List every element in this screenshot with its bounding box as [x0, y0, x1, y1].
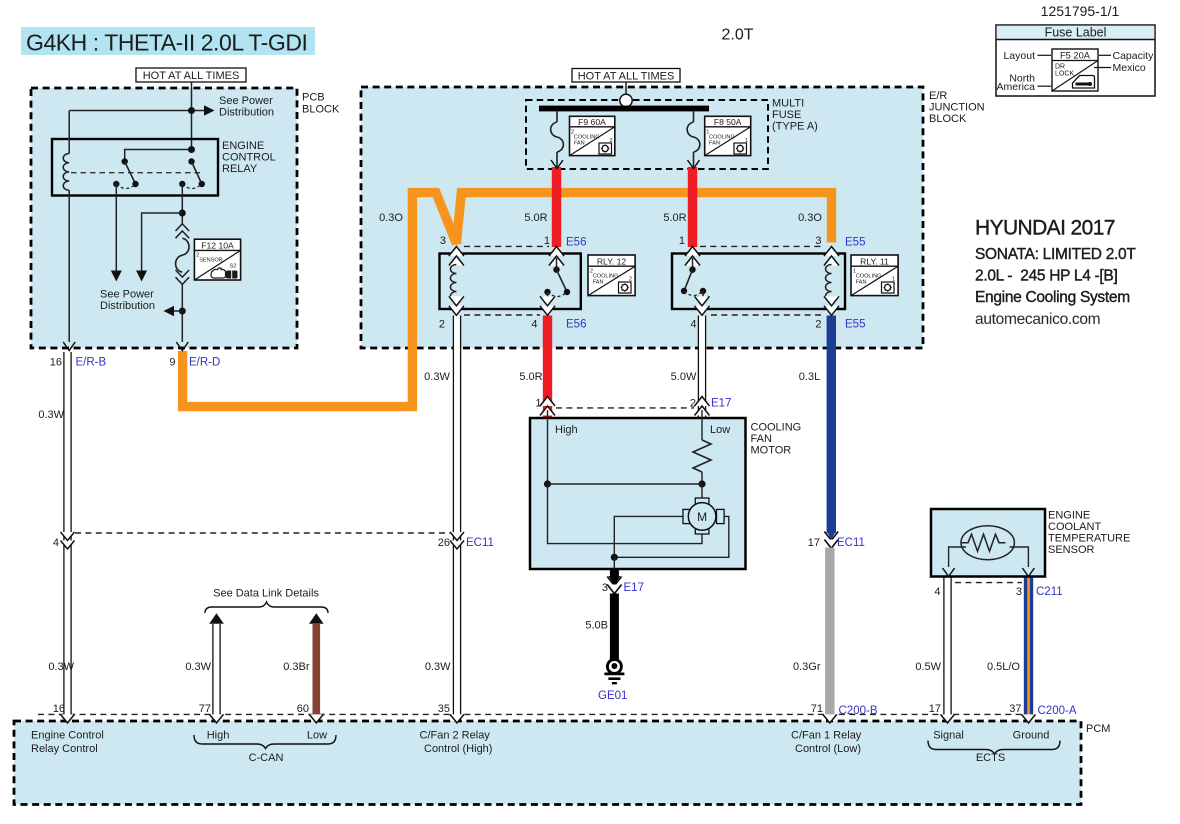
svg-text:Ground: Ground: [1013, 730, 1050, 742]
MULTI FUSE box: [526, 100, 768, 169]
legend fuse box F5: [1052, 49, 1098, 91]
RLY12 switch wire top: [556, 258, 558, 270]
ECTS brace: [928, 741, 1060, 755]
RLY11 label box: [851, 255, 898, 296]
svg-text:0.3L: 0.3L: [799, 371, 820, 383]
svg-text:LOCK: LOCK: [1055, 71, 1074, 78]
wire white 0.3W RLY12 pin2 to PCM pin35: [453, 316, 460, 715]
svg-text:HYUNDAI 2017: HYUNDAI 2017: [975, 217, 1115, 240]
RLY12 switch contact upper: [553, 267, 559, 273]
ENGINE CONTROL RELAY label: [222, 140, 276, 175]
wire blue/orange 0.5L/O ECT pin3 to PCM pin37: [1024, 577, 1033, 715]
PCM C/Fan 2 text: [420, 730, 493, 756]
PCM block box: [14, 721, 1081, 805]
PCM pin numbers: [53, 703, 1022, 715]
svg-text:ECTS: ECTS: [976, 752, 1005, 764]
RLY12 switch contacts lower: [544, 289, 570, 295]
svg-text:35: 35: [438, 703, 450, 715]
svg-text:FAN: FAN: [593, 279, 604, 285]
data link brace: [205, 602, 328, 613]
svg-text:0.3W: 0.3W: [185, 661, 211, 673]
PCM pin60 chevron: [309, 714, 323, 723]
fan resistor: [693, 440, 711, 472]
svg-text:16: 16: [50, 357, 62, 369]
fuse F12 label box: [194, 239, 240, 280]
svg-text:1: 1: [544, 235, 550, 247]
svg-text:F9 60A: F9 60A: [578, 117, 606, 127]
fan wire resistor to node: [701, 472, 703, 484]
RLY11 switch contacts lower: [681, 288, 706, 294]
fan pin3 labels: [602, 582, 644, 594]
svg-text:71: 71: [811, 703, 823, 715]
wire white 5.0W RLY11 pin4 to fan pin2: [698, 316, 705, 419]
svg-text:Relay Control: Relay Control: [31, 743, 98, 755]
MULTI FUSE label: [772, 98, 818, 133]
E/R-D pin label: [169, 357, 220, 369]
fan wire low: [701, 410, 703, 440]
pin16 arrowhead: [63, 342, 75, 351]
svg-text:26: 26: [438, 537, 450, 549]
svg-text:CONTROL: CONTROL: [222, 152, 276, 164]
svg-text:3: 3: [1016, 586, 1022, 598]
svg-text:E55: E55: [845, 319, 865, 331]
svg-text:ENGINE: ENGINE: [222, 140, 264, 152]
svg-text:C-CAN: C-CAN: [249, 752, 284, 764]
RLY11 switch wire down: [702, 291, 704, 302]
wire gray 0.3Gr EC11 to PCM pin71: [825, 548, 834, 715]
switch2 blade: [192, 162, 202, 185]
svg-text:0.3O: 0.3O: [798, 212, 822, 224]
wire blue arrowhead at EC11: [827, 531, 836, 540]
svg-text:FAN: FAN: [751, 433, 772, 445]
svg-text:M: M: [697, 510, 707, 524]
RLY11 coil chevron bottom: [824, 296, 839, 315]
wire orange 0.3O path: [183, 193, 832, 407]
fuse F12 S-curve: [176, 238, 190, 272]
C-CAN brace: [194, 735, 336, 749]
fan node C: [611, 554, 618, 561]
svg-text:E17: E17: [711, 398, 731, 410]
svg-text:Distribution: Distribution: [219, 107, 274, 119]
switch1 contact upper: [122, 158, 128, 164]
fan wire high: [547, 410, 549, 484]
ECT pin labels: [934, 586, 1062, 598]
engine control relay box: [52, 139, 218, 196]
svg-text:(TYPE A): (TYPE A): [772, 121, 818, 133]
svg-text:4: 4: [690, 319, 696, 331]
switch1 blade: [125, 162, 136, 185]
svg-text:SENSOR: SENSOR: [199, 258, 223, 264]
svg-text:5.0R: 5.0R: [519, 371, 542, 383]
chevron 2 at EC11 pin17: [824, 540, 838, 549]
arrow down see power left: [111, 271, 122, 282]
PCM pin35 chevron: [450, 714, 464, 723]
svg-text:Control (High): Control (High): [424, 743, 492, 755]
svg-text:EC11: EC11: [837, 537, 865, 549]
node fuse top: [179, 210, 186, 217]
svg-text:5.0B: 5.0B: [585, 620, 608, 632]
arrow right see power: [204, 105, 215, 115]
fuse label legend box: [996, 25, 1155, 96]
RLY11 coil chevron top: [824, 247, 839, 266]
svg-text:S2: S2: [230, 264, 237, 270]
relay RLY11 box: [672, 254, 845, 310]
RLY12 switch wire down: [547, 292, 549, 302]
E/R-B pin label: [50, 357, 107, 369]
connector row E55 bottom dashed: [711, 314, 824, 316]
wire blue 0.3L RLY11 pin2 to EC11 pin17: [827, 316, 836, 534]
RLY11 coil: [826, 265, 832, 301]
fuse F9 lead: [556, 111, 558, 122]
svg-text:2: 2: [690, 398, 696, 410]
PCM C/Fan 1 text: [791, 730, 862, 756]
fuse F8 arrowhead: [688, 160, 700, 169]
node below fuse: [179, 308, 186, 315]
svg-text:GE01: GE01: [598, 690, 627, 702]
fan pin1 chevron: [540, 397, 555, 416]
svg-text:3: 3: [815, 235, 821, 247]
svg-text:C200-B: C200-B: [839, 705, 878, 717]
connector row E56 bottom dashed: [464, 314, 540, 316]
svg-text:E/R-D: E/R-D: [189, 357, 220, 369]
svg-text:0.3Br: 0.3Br: [283, 661, 310, 673]
fan pin labels: [535, 398, 696, 410]
svg-text:See Power: See Power: [219, 95, 273, 107]
E/R JUNCTION BLOCK label: [929, 90, 985, 125]
svg-text:1251795-1/1: 1251795-1/1: [1041, 3, 1120, 19]
svg-text:F5 20A: F5 20A: [1060, 51, 1091, 61]
legend Capacity label: [1099, 50, 1154, 62]
svg-text:High: High: [207, 730, 230, 742]
svg-text:C/Fan 2 Relay: C/Fan 2 Relay: [420, 730, 491, 742]
PCM pin71 chevron: [823, 714, 837, 723]
fan node A: [544, 480, 551, 487]
connector row E17 dashed: [556, 407, 694, 409]
fuse F8 lead: [693, 111, 695, 122]
wire red 5.0R fuse F8 to RLY11 pin1: [688, 167, 697, 247]
svg-text:Capacity: Capacity: [1113, 50, 1155, 62]
svg-text:Engine Control: Engine Control: [31, 730, 104, 742]
fan wire motor left to node C: [614, 516, 683, 557]
svg-text:E17: E17: [624, 582, 644, 594]
svg-text:PCB: PCB: [302, 92, 325, 104]
ground GE01 symbol: [604, 660, 624, 684]
svg-text:Mexico: Mexico: [1113, 62, 1146, 74]
connector row E56 top dashed: [464, 245, 549, 247]
svg-text:2: 2: [439, 319, 445, 331]
ECT ellipse: [961, 526, 1014, 560]
legend Layout label: [1003, 50, 1051, 62]
See Power Distribution text top: [219, 95, 274, 119]
PCM pin17 chevron: [941, 714, 955, 723]
switch2 dashed arc: [182, 184, 202, 189]
svg-text:0.5W: 0.5W: [915, 661, 941, 673]
fan wire node A to B: [548, 483, 703, 485]
svg-text:C/Fan 1 Relay: C/Fan 1 Relay: [791, 730, 862, 742]
svg-text:F12 10A: F12 10A: [201, 241, 234, 251]
svg-text:High: High: [555, 424, 578, 436]
wire labels row1: [379, 212, 822, 224]
svg-text:C211: C211: [1036, 586, 1063, 598]
RLY12 switch chevron top: [549, 247, 564, 266]
chevron fan pin3: [607, 585, 621, 594]
wire gauge labels row3: [48, 661, 1020, 673]
RLY11 switch chevron top: [685, 247, 700, 266]
svg-text:ENGINE: ENGINE: [1048, 510, 1090, 522]
PCM pin77 chevron: [210, 714, 224, 723]
svg-text:5.0W: 5.0W: [671, 371, 697, 383]
pin9 arrowhead: [176, 342, 188, 351]
EC11 pin4 chevron: [61, 532, 75, 549]
svg-text:Layout: Layout: [1003, 50, 1035, 62]
svg-text:0.3W: 0.3W: [425, 661, 451, 673]
switch2 contacts lower: [179, 181, 205, 187]
wire arrow-left branch: [172, 310, 182, 312]
arrow up C-CAN Low: [309, 613, 324, 624]
RLY11 switch wire top: [692, 258, 694, 270]
RLY12 coil chevron bottom: [449, 296, 464, 315]
arrow up C-CAN High: [209, 613, 224, 624]
EC11 pin17 label: [808, 537, 865, 549]
svg-text:16: 16: [53, 703, 65, 715]
svg-text:G4KH : THETA-II 2.0L T-GDI: G4KH : THETA-II 2.0L T-GDI: [26, 30, 307, 56]
node switch1 top: [188, 146, 195, 153]
svg-text:RELAY: RELAY: [222, 163, 258, 175]
ECT sensor label: [1048, 510, 1130, 557]
ECT wire right: [1010, 547, 1029, 567]
wire brown 0.3Br C-CAN Low: [313, 624, 321, 715]
relay internal dashed line: [71, 172, 202, 174]
svg-text:E56: E56: [566, 319, 586, 331]
svg-text:5.0R: 5.0R: [524, 212, 547, 224]
pin labels relay top: [440, 235, 822, 247]
fuse F8 S-curve: [687, 122, 700, 152]
HOT AT ALL TIMES label 1: [136, 68, 246, 82]
ECT wire left: [949, 547, 966, 567]
svg-text:Control (Low): Control (Low): [795, 743, 861, 755]
svg-text:17: 17: [808, 537, 820, 549]
fan wire node A loop to motor bottom: [548, 484, 703, 544]
svg-text:MOTOR: MOTOR: [751, 445, 792, 457]
fuse F12 chevrons down: [176, 270, 190, 284]
svg-text:60: 60: [297, 703, 309, 715]
connector row E55 top dashed: [700, 245, 824, 247]
svg-text:SONATA: LIMITED 2.0T: SONATA: LIMITED 2.0T: [975, 246, 1136, 263]
svg-text:2.0L - 245 HP L4 -[B]: 2.0L - 245 HP L4 -[B]: [975, 268, 1117, 285]
fan pin2 chevron: [695, 397, 710, 416]
svg-text:0.5L/O: 0.5L/O: [987, 661, 1020, 673]
svg-text:F8 50A: F8 50A: [714, 117, 742, 127]
fuse F9 S-curve: [551, 122, 564, 152]
node top junction: [188, 107, 195, 114]
connector row EC11 dashed: [75, 532, 450, 534]
E/R JUNCTION BLOCK box: [361, 87, 923, 348]
PCB BLOCK label: [302, 92, 340, 116]
relay RLY12 box: [440, 254, 581, 310]
svg-text:SENSOR: SENSOR: [1048, 544, 1095, 556]
fuse F8 lead lower: [693, 152, 695, 168]
svg-text:EC11: EC11: [466, 537, 494, 549]
black arrowhead fan pin3: [609, 576, 621, 585]
fuse F9 label box: [570, 116, 615, 155]
svg-text:Distribution: Distribution: [100, 300, 155, 312]
svg-text:HOT AT ALL TIMES: HOT AT ALL TIMES: [143, 70, 240, 82]
svg-text:See Data Link Details: See Data Link Details: [213, 588, 319, 600]
svg-text:RLY. 11: RLY. 11: [860, 256, 889, 266]
svg-text:RLY. 12: RLY. 12: [597, 256, 627, 266]
wire branch to second down arrow: [142, 213, 183, 271]
switch1 contacts lower: [113, 181, 139, 187]
ECT sensor box: [931, 509, 1045, 577]
svg-text:2: 2: [815, 319, 821, 331]
PCM pin37 chevron: [1022, 714, 1036, 723]
switch2 contact upper: [188, 158, 194, 164]
title highlight: [21, 27, 315, 55]
wire HOT2 down: [625, 82, 627, 95]
wire switch1 down: [115, 184, 117, 271]
svg-text:FUSE: FUSE: [772, 109, 801, 121]
ECT pin4 arrowhead: [943, 568, 955, 577]
svg-text:0.3O: 0.3O: [379, 212, 403, 224]
vehicle info text block: [975, 217, 1136, 329]
svg-text:E55: E55: [845, 237, 865, 249]
wire black 5.0B fan pin3 upper: [610, 569, 619, 577]
svg-text:TEMPERATURE: TEMPERATURE: [1048, 533, 1130, 545]
fan wire node C down: [613, 557, 615, 569]
svg-text:0.3W: 0.3W: [38, 409, 64, 421]
COOLING FAN MOTOR label: [751, 422, 802, 457]
fan wire motor right loop to node C: [614, 516, 729, 557]
svg-text:See Power: See Power: [100, 289, 154, 301]
relay coil: [63, 154, 69, 191]
RLY12 switch blade: [557, 270, 568, 292]
relay coil wire upper: [68, 111, 70, 154]
legend Mexico label: [1094, 62, 1146, 74]
EC11 pin26 label: [438, 537, 494, 549]
motor tabs: [683, 498, 724, 534]
svg-text:0.3W: 0.3W: [424, 371, 450, 383]
svg-text:37: 37: [1009, 703, 1021, 715]
svg-text:4: 4: [53, 537, 59, 549]
wire see-power branch top: [69, 110, 205, 112]
svg-text:3: 3: [602, 582, 608, 594]
PCB BLOCK box: [31, 88, 297, 348]
wire white 0.5W ECT pin4 to PCM pin17: [944, 577, 951, 715]
cooling fan motor box: [530, 418, 746, 569]
wire coil to pin16: [68, 190, 70, 342]
RLY11 switch dashed arc: [684, 291, 703, 296]
PCM pin16 chevron: [61, 714, 75, 723]
svg-text:0.3W: 0.3W: [48, 661, 74, 673]
PCM engine control relay control text: [31, 730, 104, 756]
motor M circle: [688, 503, 716, 531]
wire red 5.0R RLY12 pin4 to fan pin1: [543, 316, 552, 419]
svg-text:E/R: E/R: [929, 90, 947, 102]
RLY11 switch contact upper: [689, 267, 695, 273]
fuse F9 lead lower: [556, 152, 558, 168]
wire white 0.3W E/R-B to PCM pin16: [64, 352, 71, 715]
wire HOT1 to PCB: [191, 82, 193, 150]
legend North America label: [996, 73, 1051, 94]
svg-text:FAN: FAN: [856, 279, 867, 285]
bus bar: [539, 106, 709, 112]
svg-text:Low: Low: [710, 424, 730, 436]
connector row C211 dashed: [955, 582, 1022, 584]
RLY12 switch arrowhead: [543, 296, 553, 303]
connector row PCM dashed: [38, 713, 1029, 715]
RLY12 label box: [588, 255, 635, 296]
fuse F12 chevrons up: [176, 224, 190, 238]
svg-text:1: 1: [679, 235, 685, 247]
node white circle: [620, 94, 632, 106]
fuse F8 label box: [705, 116, 751, 155]
svg-text:PCM: PCM: [1086, 723, 1110, 735]
fan wire node B to motor: [701, 484, 703, 502]
svg-text:DR: DR: [1055, 64, 1065, 71]
svg-text:FAN: FAN: [709, 140, 720, 146]
RLY11 switch arrowhead: [698, 296, 708, 303]
ECT resistor zigzag: [962, 534, 1006, 551]
svg-text:2.0T: 2.0T: [721, 27, 753, 44]
svg-text:HOT AT ALL TIMES: HOT AT ALL TIMES: [578, 71, 675, 83]
wire switch2 down: [181, 184, 183, 224]
svg-text:automecanico.com: automecanico.com: [975, 311, 1100, 328]
arrow left: [164, 306, 175, 316]
RLY11 switch chevron bottom: [695, 296, 710, 315]
svg-text:17: 17: [929, 703, 941, 715]
svg-text:BLOCK: BLOCK: [302, 104, 340, 116]
svg-text:C200-A: C200-A: [1038, 705, 1077, 717]
See Power Distribution text bottom: [100, 289, 155, 313]
fan node B: [698, 480, 705, 487]
wire white 0.3W C-CAN High: [213, 624, 220, 715]
svg-text:Fuse Label: Fuse Label: [1045, 26, 1107, 40]
RLY11 switch blade: [684, 270, 693, 291]
svg-text:3: 3: [440, 235, 446, 247]
svg-text:5.0R: 5.0R: [663, 212, 686, 224]
svg-text:Low: Low: [307, 730, 327, 742]
ECT pin3 arrowhead: [1022, 568, 1034, 577]
relay switch1 wire top: [125, 150, 192, 162]
svg-text:77: 77: [199, 703, 211, 715]
svg-text:COOLING: COOLING: [751, 422, 802, 434]
svg-text:FAN: FAN: [574, 140, 585, 146]
svg-text:E/R-B: E/R-B: [76, 357, 107, 369]
svg-text:4: 4: [531, 319, 537, 331]
wire red 5.0R fuse F9 to RLY12 pin1: [552, 167, 561, 247]
svg-text:MULTI: MULTI: [772, 98, 804, 110]
svg-text:Signal: Signal: [933, 730, 964, 742]
RLY12 switch chevron bottom: [540, 296, 555, 315]
svg-text:4: 4: [934, 586, 940, 598]
RLY12 coil: [450, 265, 456, 301]
arrow down see power right: [136, 271, 147, 282]
svg-text:JUNCTION: JUNCTION: [929, 102, 985, 114]
RLY12 coil chevron top: [449, 247, 464, 266]
svg-text:0.3Gr: 0.3Gr: [793, 661, 821, 673]
wire labels row2: [424, 371, 820, 383]
pin labels relay bottom: [439, 319, 822, 331]
svg-text:E56: E56: [566, 237, 586, 249]
svg-text:America: America: [996, 81, 1035, 93]
svg-text:COOLANT: COOLANT: [1048, 521, 1101, 533]
fuse F9 arrowhead: [551, 160, 563, 169]
svg-text:Engine Cooling System: Engine Cooling System: [975, 289, 1130, 306]
svg-text:1: 1: [535, 398, 541, 410]
wire black 5.0B to ground: [610, 594, 619, 660]
HOT AT ALL TIMES label 2: [572, 69, 680, 83]
chevron outline at EC11 pin17: [824, 532, 838, 541]
